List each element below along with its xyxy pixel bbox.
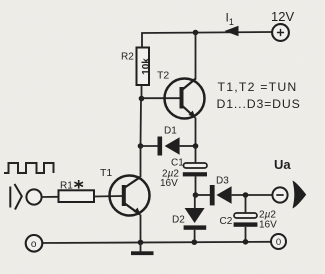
wire T1 collector up to D1 node bbox=[140, 146, 142, 177]
wire base node to T2 base bbox=[142, 97, 181, 99]
input terminal circle bbox=[26, 189, 41, 204]
input arrow symbol bbox=[10, 184, 21, 210]
node junction top rail / T2 collector bbox=[193, 30, 199, 36]
node T1 emitter / ground bbox=[138, 240, 144, 246]
current arrow I1 bbox=[225, 11, 239, 37]
node C2 bottom bbox=[243, 239, 249, 245]
diode D3 bbox=[210, 176, 273, 206]
ground symbol bbox=[131, 242, 154, 255]
resistor R1 bbox=[59, 180, 95, 202]
node D2 anode / D3 bbox=[193, 192, 199, 198]
output arrow bbox=[293, 181, 307, 209]
wire C1 to D2/D3 node bbox=[195, 176, 197, 195]
node C2 top bbox=[243, 192, 249, 198]
capacitor C1 bbox=[160, 158, 207, 189]
wire base node down to D1 anode node bbox=[140, 99, 143, 147]
diode D1 bbox=[141, 126, 196, 156]
bottom rail bbox=[42, 242, 271, 243]
node D1 anode bbox=[138, 143, 144, 149]
resistor R2 bbox=[121, 48, 152, 86]
node base junction bbox=[139, 96, 145, 102]
wire top rail bbox=[142, 32, 273, 48]
transistor T2 bbox=[157, 70, 205, 119]
wire T2 emitter vertical bbox=[195, 118, 197, 147]
wire node to C1 bbox=[195, 146, 197, 164]
capacitor C2 bbox=[220, 195, 278, 242]
wire T1 emitter down to ground rail bbox=[140, 215, 142, 243]
terminal 0 bottom right bbox=[271, 234, 286, 249]
diode D2 bbox=[172, 208, 206, 242]
wire node to D3 bbox=[196, 194, 211, 196]
output terminal Ua bbox=[272, 157, 291, 203]
wire R1 to T1 base bbox=[94, 195, 123, 198]
input waveform symbol bbox=[4, 163, 54, 173]
wire node to D2 bbox=[194, 195, 196, 209]
node D1 cathode / T2 emitter bbox=[193, 143, 199, 149]
wire input to R1 bbox=[42, 196, 59, 198]
wire R2 bottom to base node bbox=[141, 85, 143, 99]
transistor T1 bbox=[100, 167, 150, 216]
node D2 cathode bottom bbox=[192, 239, 198, 245]
terminal 0 bottom left bbox=[26, 235, 43, 252]
supply terminal 12V bbox=[271, 9, 294, 41]
wire T2 collector vertical bbox=[195, 33, 197, 80]
